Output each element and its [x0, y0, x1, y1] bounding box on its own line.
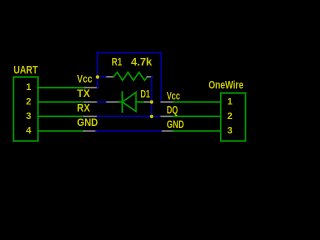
wire resistor branch blue from junction [98, 76, 108, 78]
wire GND green segment to OneWire pin3 [173, 130, 221, 132]
wire RX to DQ blue segment [98, 115, 162, 117]
svg-text:R1: R1 [112, 57, 122, 69]
svg-text:Vcc: Vcc [77, 74, 92, 86]
wire DQ vertical blue from resistor to RX row [151, 77, 153, 116]
svg-text:3: 3 [26, 111, 31, 122]
svg-text:TX: TX [77, 88, 91, 100]
wire GND blue segment [96, 130, 163, 132]
svg-text:OneWire: OneWire [209, 80, 244, 92]
wire Vcc right vertical drop blue [160, 53, 162, 102]
svg-text:2: 2 [227, 111, 232, 122]
resistor R1 zigzag body [114, 72, 148, 80]
wire TX blue segment inside selection [98, 101, 108, 103]
svg-text:3: 3 [227, 126, 232, 137]
diode D1 triangle [122, 92, 136, 111]
junction dot DQ vertical / RX row [150, 115, 153, 118]
wire resistor right gray lead [148, 76, 152, 78]
wire GND gray segment right [163, 130, 174, 132]
svg-text:GND: GND [77, 117, 98, 129]
connector UART box [14, 77, 39, 141]
wire UART pin1 Vcc gray segment [85, 87, 98, 89]
diode D1 cathode bar [121, 92, 123, 112]
wire resistor left gray lead [107, 76, 114, 78]
svg-text:2: 2 [26, 97, 31, 108]
wire UART pin2 TX green segment [38, 101, 85, 103]
wire GND gray segment left [84, 130, 96, 132]
wire UART pin3 RX green segment [38, 115, 84, 117]
wire UART pin2 TX gray segment [85, 101, 98, 103]
svg-text:D1: D1 [141, 89, 151, 101]
svg-text:1: 1 [227, 97, 233, 108]
svg-text:RX: RX [77, 102, 91, 114]
svg-text:1: 1 [26, 82, 32, 93]
svg-text:GND: GND [167, 119, 184, 131]
wire DQ gray segment [161, 115, 173, 117]
wire Vcc top horizontal blue [98, 52, 162, 54]
svg-text:4: 4 [26, 126, 32, 137]
wire diode anode gray lead to junction [145, 101, 152, 103]
wire DQ green segment to OneWire pin2 [173, 115, 221, 117]
wire UART pin1 Vcc green segment [38, 87, 85, 89]
svg-text:4.7k: 4.7k [131, 57, 153, 69]
junction dot Vcc/resistor [96, 75, 99, 78]
connector OneWire box [221, 93, 246, 141]
wire OneWire Vcc gray segment [161, 101, 173, 103]
wire UART pin4 GND green segment [38, 130, 84, 132]
wire Vcc vertical riser blue [97, 53, 99, 88]
svg-text:UART: UART [14, 64, 39, 76]
svg-text:Vcc: Vcc [167, 90, 180, 102]
svg-text:DQ: DQ [167, 105, 179, 117]
wire OneWire Vcc green segment to pin1 [173, 101, 221, 103]
wire UART pin3 RX gray segment [84, 115, 98, 117]
junction dot diode anode / DQ vertical [150, 100, 153, 103]
wire diode cathode gray lead [107, 101, 119, 103]
wire diode anode green lead [136, 101, 145, 103]
wire diode cathode green stub [119, 101, 123, 103]
